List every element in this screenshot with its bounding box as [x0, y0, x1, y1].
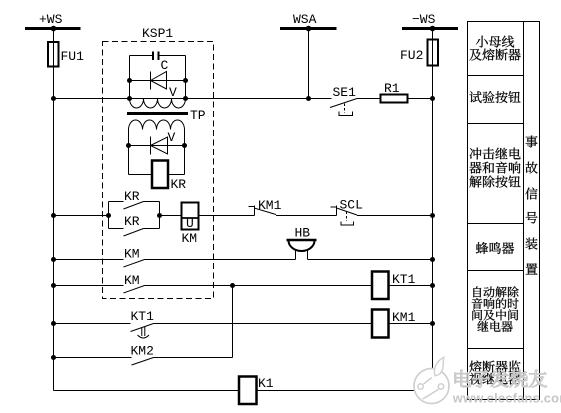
- table row3 line3 解除按钮: [470, 176, 521, 188]
- wire R1 to right rail: [408, 98, 433, 100]
- node row A left rail: [51, 213, 56, 218]
- contact KM1 (NC): [249, 206, 277, 216]
- table row5 line3 间及中间: [472, 309, 518, 320]
- svg-text:KM1: KM1: [258, 198, 282, 213]
- svg-text:−WS: −WS: [412, 12, 436, 27]
- capacitor C: [153, 52, 159, 61]
- node TP primary right: [183, 96, 188, 101]
- table row3 line1 冲击继电: [470, 148, 521, 160]
- buzzer HB: [287, 240, 317, 260]
- table row5 line1 自动解除: [473, 286, 518, 297]
- node row D right rail: [430, 321, 435, 326]
- wire KM1 to SCL: [276, 215, 337, 217]
- wire bottom row right: [257, 390, 433, 392]
- svg-text:R1: R1: [384, 81, 400, 96]
- contact KR upper (NO): [109, 202, 160, 229]
- fuse FU1: [48, 42, 59, 67]
- wire -WS to FU2: [432, 29, 434, 41]
- pushbutton SCL (NC): [331, 206, 358, 226]
- wire bottom row left: [54, 390, 240, 392]
- node TP primary left: [127, 96, 132, 101]
- relay KM impulse box U: [182, 203, 199, 230]
- node row B right rail: [430, 257, 435, 262]
- svg-text:KR: KR: [171, 177, 187, 192]
- wire SE1 to R1: [357, 98, 381, 100]
- wire row D left: [54, 323, 131, 325]
- svg-text:KM2: KM2: [131, 344, 154, 359]
- table right column 故: [526, 162, 538, 174]
- wire row E riser: [232, 286, 234, 358]
- wire left rail: [53, 67, 55, 391]
- wire row B mid: [145, 259, 296, 261]
- transformer TP primary: [130, 99, 186, 109]
- wire row D mid: [154, 323, 373, 325]
- wire row B right: [308, 259, 433, 261]
- svg-text:KSP1: KSP1: [142, 26, 173, 41]
- table frame: [468, 22, 540, 400]
- contact KM row C (NO): [124, 286, 145, 294]
- svg-text:SCL: SCL: [340, 198, 363, 213]
- wire KR to KM box: [160, 215, 182, 217]
- table row3 line2 器和音响: [469, 162, 520, 174]
- node row C branch: [230, 283, 235, 288]
- wire row C mid: [145, 285, 373, 287]
- svg-text:V: V: [168, 130, 176, 145]
- table right column 事: [526, 136, 538, 148]
- svg-text:KT1: KT1: [131, 309, 155, 324]
- svg-text:KR: KR: [124, 214, 140, 229]
- svg-text:U: U: [186, 216, 194, 231]
- svg-text:K1: K1: [258, 376, 274, 391]
- watermark logo: [414, 357, 449, 403]
- transformer TP core: [127, 112, 188, 115]
- wire secondary loop: [129, 130, 185, 175]
- svg-text:FU1: FU1: [61, 49, 85, 64]
- wire KT1 coil to right rail: [389, 285, 433, 287]
- contact KM row B (NO): [124, 260, 145, 268]
- node KR contacts right: [157, 213, 162, 218]
- node diode V2 left: [126, 143, 131, 148]
- watermark text 电子发烧友: [455, 370, 547, 388]
- wire +WS to FU1: [53, 29, 55, 44]
- node KR contacts left: [106, 213, 111, 218]
- diode V2: [151, 137, 168, 155]
- table right column 信: [525, 188, 537, 200]
- node row B left rail: [51, 257, 56, 262]
- table row4 蜂鸣器: [476, 242, 514, 254]
- svg-text:WSA: WSA: [293, 12, 317, 27]
- svg-text:SE1: SE1: [333, 85, 357, 100]
- wire row E right: [154, 357, 233, 359]
- contact KR lower (NO): [109, 202, 160, 237]
- svg-text:KT1: KT1: [392, 272, 416, 287]
- node row E left rail: [51, 355, 56, 360]
- wire main row left: [54, 98, 130, 100]
- node main row WSA: [306, 96, 311, 101]
- wire row B left: [54, 259, 124, 261]
- wire row C left: [54, 285, 124, 287]
- node row C left rail: [51, 283, 56, 288]
- svg-text:FU2: FU2: [400, 48, 423, 63]
- wire KM box to KM1: [199, 215, 255, 217]
- svg-text:KM1: KM1: [392, 310, 416, 325]
- svg-text:TP: TP: [190, 108, 206, 123]
- wire main row mid: [186, 98, 332, 100]
- bus WSA: [280, 26, 337, 32]
- node row D left rail: [51, 321, 56, 326]
- diode V1: [151, 72, 167, 90]
- node row C right rail: [430, 283, 435, 288]
- table right column 装: [526, 238, 538, 250]
- wire right rail: [432, 66, 434, 391]
- svg-text:V: V: [169, 85, 177, 100]
- resistor R1: [381, 95, 408, 103]
- wire capacitor branch: [130, 56, 186, 99]
- relay coil K1: [239, 377, 257, 405]
- node diode V2 right: [182, 143, 187, 148]
- svg-text:HB: HB: [295, 226, 311, 241]
- wire row A left: [54, 215, 109, 217]
- wire row E left: [54, 357, 132, 359]
- bus -WS: [402, 26, 458, 32]
- relay coil KT1: [372, 272, 389, 300]
- svg-text:C: C: [161, 58, 169, 73]
- contact KM2 (NO): [132, 358, 154, 366]
- wire SCL to right rail: [357, 215, 433, 217]
- node main row left rail: [51, 96, 56, 101]
- fuse FU2: [428, 40, 439, 67]
- relay KSP1 dashed box: [103, 42, 214, 299]
- wire KM1 coil to right rail: [389, 323, 433, 325]
- relay coil KR: [152, 161, 168, 189]
- transformer TP secondary: [129, 120, 185, 129]
- wire WSA drop: [308, 29, 310, 99]
- contact KT1 delayed (NO): [131, 324, 154, 339]
- table row5 line2 音响的时: [472, 298, 519, 309]
- svg-text:KM: KM: [182, 231, 198, 246]
- table right column 置: [526, 263, 538, 274]
- svg-text:www.elecfans.com: www.elecfans.com: [452, 391, 561, 406]
- relay coil KM1: [372, 310, 389, 338]
- table row6 line1 熔断器监: [469, 361, 520, 373]
- node diode V1 left: [127, 78, 132, 83]
- svg-text:KR: KR: [124, 189, 140, 204]
- table row1 line2 及熔断器: [469, 49, 520, 61]
- svg-text:KM: KM: [124, 247, 140, 262]
- bus +WS: [25, 26, 81, 32]
- table row2 试验按钮: [470, 91, 521, 103]
- node row A right rail: [430, 213, 435, 218]
- wire diode V1 row: [130, 80, 186, 82]
- table row5 line4 继电器: [477, 321, 512, 332]
- node main row right rail: [430, 96, 435, 101]
- svg-text:+WS: +WS: [39, 12, 63, 27]
- table row1 line1 小母线: [476, 36, 514, 48]
- node diode V1 right: [183, 78, 188, 83]
- wire diode V2 row: [129, 145, 185, 147]
- pushbutton SE1: [330, 99, 357, 116]
- table right column 号: [526, 212, 538, 224]
- svg-text:KM: KM: [124, 273, 140, 288]
- table row6 line2 视继电器: [469, 373, 520, 385]
